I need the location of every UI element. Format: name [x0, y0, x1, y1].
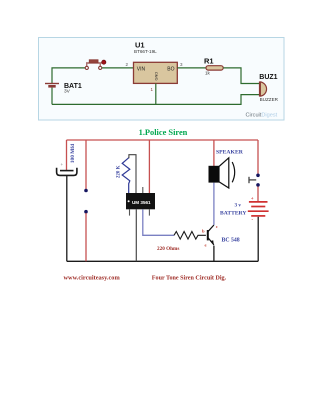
push switch — [249, 174, 260, 187]
svg-text:1k: 1k — [205, 71, 211, 76]
svg-text:1.Police Siren: 1.Police Siren — [139, 128, 188, 137]
IC UM 3561 — [126, 193, 155, 209]
speaker — [209, 149, 244, 188]
svg-text:CircuitDigest: CircuitDigest — [246, 113, 278, 119]
wire speaker to collector (blue) — [213, 183, 215, 225]
svg-text:220 Ohms: 220 Ohms — [157, 246, 179, 252]
svg-text:BUZ1: BUZ1 — [259, 74, 277, 81]
CircuitDigest logo — [246, 113, 278, 119]
wire capacitor to ground bus — [66, 175, 68, 261]
resistor R1 — [204, 57, 223, 76]
svg-text:VIN: VIN — [137, 66, 146, 72]
svg-text:SPEAKER: SPEAKER — [216, 149, 244, 155]
svg-text:BT66T-19L: BT66T-19L — [134, 49, 157, 54]
svg-text:c: c — [216, 224, 218, 229]
left connector wire upper — [85, 140, 87, 189]
wire U1 BO to R1 — [177, 67, 206, 69]
svg-text:UM 3561: UM 3561 — [132, 200, 151, 205]
resistor 220 Ohms — [157, 232, 206, 253]
wire switch to battery + — [257, 187, 259, 202]
wire bus to speaker (red) — [213, 140, 215, 166]
svg-text:Four Tone Siren Circuit Dig.: Four Tone Siren Circuit Dig. — [152, 276, 227, 282]
IC pin stubs top — [142, 187, 144, 193]
svg-text:100 Mfd: 100 Mfd — [70, 144, 76, 163]
svg-text:-: - — [252, 218, 254, 223]
wire battery top to switch — [52, 68, 85, 84]
wire IC output pin to 220 Ohm resistor (blue) — [143, 209, 174, 235]
ground bus wire (top circuit) — [52, 95, 260, 105]
IC U1 BT66T-19L — [134, 41, 178, 84]
buzzer BUZ1 — [259, 74, 278, 102]
resistor 220K — [117, 158, 130, 193]
U1 pin 1 wire to ground bus — [155, 83, 157, 104]
top supply bus (red) — [67, 139, 259, 141]
battery 3v — [220, 202, 269, 217]
node lower — [84, 210, 88, 214]
switch (push button) — [85, 60, 106, 70]
battery BAT1 — [45, 83, 82, 95]
capacitor 100 Mfd — [57, 144, 77, 176]
wire battery bottom — [51, 88, 53, 105]
wire bus to push switch (red) — [257, 140, 259, 174]
wire R1 to buzzer top pin — [223, 68, 259, 84]
IC pin stubs bottom — [129, 209, 131, 215]
svg-text:www.circuiteasy.com: www.circuiteasy.com — [64, 275, 121, 282]
svg-text:BO: BO — [167, 66, 174, 72]
svg-text:R1: R1 — [204, 57, 214, 66]
svg-text:BATTERY: BATTERY — [220, 211, 246, 217]
svg-text:220 K: 220 K — [117, 165, 122, 178]
wire emitter to ground bus — [213, 246, 215, 262]
svg-text:e: e — [205, 243, 207, 248]
wire bus to capacitor — [66, 140, 68, 170]
svg-text:+: + — [61, 162, 64, 167]
wire bus to IC top pin (red) — [148, 140, 150, 193]
svg-text:GND: GND — [154, 72, 159, 81]
node upper — [84, 189, 88, 193]
transistor BC 548 — [202, 224, 240, 248]
svg-text:b: b — [202, 229, 205, 234]
svg-text:3 v: 3 v — [235, 203, 242, 209]
wire 220K top to IC pin — [129, 155, 136, 193]
left connector wire lower — [85, 213, 87, 261]
svg-text:BUZZER: BUZZER — [260, 97, 279, 102]
panel frame — [39, 38, 285, 121]
wire IC ground pin to bus — [135, 209, 137, 261]
svg-text:3V: 3V — [64, 88, 71, 94]
wire battery - to ground bus — [257, 217, 259, 261]
svg-text:BC 548: BC 548 — [222, 238, 240, 244]
ground bus (bottom, black) — [67, 260, 258, 262]
wire switch to U1 pin 2 — [102, 67, 134, 69]
